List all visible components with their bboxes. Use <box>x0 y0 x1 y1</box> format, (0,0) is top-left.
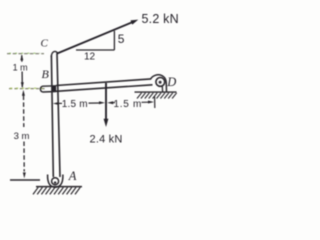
column AC (vertical member, double line) <box>51 54 60 178</box>
extension tick at D <box>154 97 156 109</box>
pin at A <box>52 178 59 185</box>
ground hatching at A <box>33 187 80 194</box>
clevis at B (rounded left end of member) <box>40 86 56 92</box>
svg-text:2.4 kN: 2.4 kN <box>90 134 123 146</box>
svg-text:B: B <box>42 67 50 81</box>
pin at D <box>156 78 165 87</box>
pedestal under pin D <box>161 86 163 91</box>
support curl at D (member end wraps pin) <box>151 75 167 92</box>
dimension 1 m (shaft + arrowheads) <box>21 55 24 87</box>
inclined force line 5.2 kN (slope 5:12) <box>57 22 133 54</box>
arrowhead 2.4 kN <box>104 119 109 127</box>
ground line at D <box>135 91 177 93</box>
pin at B <box>52 86 56 91</box>
svg-text:1.5 m: 1.5 m <box>62 99 88 110</box>
member BD (horizontal, double line) <box>56 79 153 91</box>
dimension left 1.5 m <box>58 102 100 104</box>
svg-text:A: A <box>68 169 77 183</box>
extension dashes at B level <box>9 88 45 90</box>
svg-text:5: 5 <box>118 32 125 46</box>
dimension right 1.5 m <box>113 101 149 103</box>
svg-text:C: C <box>41 38 49 50</box>
svg-text:D: D <box>166 75 176 89</box>
clevis at A (base of column) <box>48 175 63 188</box>
ground line at A <box>36 186 82 188</box>
svg-text:1 m: 1 m <box>13 62 28 72</box>
svg-text:12: 12 <box>84 52 96 63</box>
extension bar at A level <box>10 179 40 181</box>
ground hatching at D <box>137 93 177 99</box>
rounded cap at C (top of column) <box>51 52 58 57</box>
svg-text:3 m: 3 m <box>14 131 30 142</box>
force 2.4 kN line <box>105 83 107 121</box>
svg-text:5.2 kN: 5.2 kN <box>142 12 179 26</box>
slope triangle legs <box>76 31 114 50</box>
svg-text:1.5 m: 1.5 m <box>114 99 143 110</box>
dimension 3 m (dashed shaft + arrowheads) <box>23 96 26 172</box>
extension dashes at C level <box>7 53 44 55</box>
arrowhead of 5.2 kN force <box>131 20 139 25</box>
